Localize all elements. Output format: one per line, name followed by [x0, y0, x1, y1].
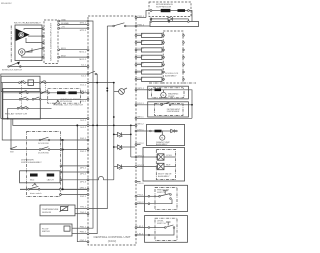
svg-text:SUPPRESSOR: SUPPRESSOR — [156, 6, 172, 8]
CCU internal wire with hop arc — [89, 176, 114, 179]
triac T3 — [114, 165, 135, 170]
washing pump outer box — [148, 86, 189, 99]
svg-text:DOOR SW: DOOR SW — [38, 152, 50, 154]
pin on dispenser edge row 2 — [60, 149, 62, 151]
wire: temp sensor to CCU pin TH1.1 — [75, 207, 89, 210]
wire: CCU pin to level switch NO — [135, 228, 174, 236]
pressure switch S7 — [159, 191, 172, 200]
valve V2 — [158, 163, 176, 169]
svg-text:MT1.3: MT1.3 — [80, 30, 87, 32]
flow meter symbol — [64, 226, 70, 231]
wire: CCU pin to drain pump — [135, 129, 151, 132]
solenoid L1 (square) on row DL — [28, 80, 34, 86]
wire: CCU pin to pressure switch common — [135, 195, 159, 198]
wire: door switch 2 to CCU pin DS1.2 — [11, 119, 89, 153]
switch S2 on wire DS1.1 — [38, 137, 50, 145]
latch unit box inside dispenser — [20, 171, 60, 183]
svg-text:RELAY SWITCH: RELAY SWITCH — [5, 113, 28, 116]
svg-text:MO1: MO1 — [61, 48, 67, 50]
wire: bus to CCU pin SL1.1 — [1, 118, 89, 123]
stub pin NE1.2 — [135, 124, 144, 127]
dispenser assembly label — [21, 160, 42, 165]
svg-text:GND: GND — [61, 19, 66, 21]
heater element R2 — [68, 91, 76, 94]
CCU internal vertical bus 3 — [113, 83, 115, 180]
svg-text:SIGNAL: SIGNAL — [61, 22, 70, 25]
CCU internal vertical bus 2 — [89, 74, 97, 234]
stub pin PS0 — [135, 181, 144, 186]
svg-text:DS1.2: DS1.2 — [80, 151, 87, 153]
CCU internal horizontal link at 82.6 — [89, 82, 114, 84]
CCU internal vertical bus 1b — [89, 26, 107, 209]
motor M1 symbol (stator wedges + armature) — [16, 29, 30, 42]
wire: heater row to CCU pin HT1.1 — [3, 91, 89, 94]
wire: right bus return to CCU — [135, 117, 192, 120]
contact K1 on row DL — [19, 80, 26, 83]
junction dots on bus — [92, 125, 132, 127]
drain pump fuse F2 — [151, 130, 171, 133]
wire: CCU pin to valve 2 — [135, 165, 157, 168]
mains filter dashed box — [149, 2, 191, 17]
pin at heater exit — [82, 92, 84, 94]
contact K2 on row DL — [39, 80, 46, 83]
detergent contact K8 — [161, 102, 193, 105]
svg-text:LATCH: LATCH — [47, 179, 54, 182]
inlet valve inner dashed box — [156, 150, 175, 180]
flow meter box — [40, 224, 72, 236]
svg-text:TH1.1: TH1.1 — [80, 207, 87, 209]
svg-text:SL1.1: SL1.1 — [80, 120, 86, 122]
CCU internal contact K9 on interlock row — [89, 71, 97, 75]
svg-text:DR1.1: DR1.1 — [80, 187, 87, 189]
motor assembly box M1 — [14, 22, 42, 61]
vertical link to bus — [7, 108, 9, 119]
svg-text:DOOR SW: DOOR SW — [38, 143, 50, 145]
svg-text:DP1.2: DP1.2 — [80, 174, 87, 176]
wire: long return bus to CCU pin GN1.1 — [76, 124, 89, 242]
svg-text:ASSEMBLY: ASSEMBLY — [165, 74, 177, 77]
heater thermostat arrow — [54, 100, 60, 105]
wire: relay row 2 to CCU pin HT1.2 — [3, 98, 89, 103]
inlet valve box — [143, 148, 185, 182]
tacho generator G1 symbol — [19, 49, 26, 56]
wire: fuse to right bus — [161, 90, 192, 119]
drain pump box — [147, 124, 185, 145]
svg-text:HT1.2: HT1.2 — [80, 101, 87, 103]
svg-text:MOTOR ASSEMBLY: MOTOR ASSEMBLY — [14, 22, 42, 25]
svg-text:METER: METER — [42, 231, 50, 233]
wire: bus to CCU pin SL1.2 — [13, 119, 89, 129]
wire: dispenser pin to CCU pin DS2.1 — [60, 194, 89, 199]
svg-text:THERMAL CUT-OUT SWITCH: THERMAL CUT-OUT SWITCH — [53, 103, 83, 106]
svg-text:ASSEMBLY: ASSEMBLY — [158, 175, 170, 178]
svg-text:M: M — [162, 95, 164, 97]
CCU internal horizontal bus to pin — [89, 124, 135, 126]
svg-text:PUMP: PUMP — [168, 96, 175, 98]
wire: common bus down — [62, 140, 64, 189]
svg-text:TH1.2: TH1.2 — [80, 212, 87, 214]
svg-text:WITH FUSE: WITH FUSE — [60, 101, 73, 103]
indicator box 3 + wires — [135, 48, 184, 52]
motor internal leads — [22, 29, 42, 57]
connector X1 (motor connector, dashed) — [44, 20, 58, 64]
svg-text:INTERLOCK SWITCH: INTERLOCK SWITCH — [2, 70, 22, 72]
svg-text:PS1.0: PS1.0 — [138, 183, 145, 185]
wire: internal to valve pin — [131, 156, 135, 158]
svg-text:SENSOR: SENSOR — [42, 212, 52, 214]
svg-text:SWITCH ASSEMBLY: SWITCH ASSEMBLY — [21, 161, 42, 164]
junction dot — [96, 82, 98, 84]
CCU internal vertical bus 4 — [130, 125, 132, 157]
svg-text:WD-8015C: WD-8015C — [1, 3, 12, 5]
dispenser switch assembly dashed box — [27, 132, 61, 197]
wire: CCU pin to detergent contact — [135, 103, 161, 106]
door-lock assembly label — [165, 73, 179, 77]
wire: relay aux contact row — [8, 106, 52, 109]
relay contact K3 on heater row — [19, 90, 28, 93]
indicator box 1 + wires — [135, 33, 184, 37]
drain pump motor M3 — [156, 131, 170, 146]
wire: motor box to connector X1 (5 leads) — [42, 28, 44, 58]
svg-text:DS1.1: DS1.1 — [80, 138, 87, 140]
CCU internal relay contact K7 (mains) — [107, 23, 135, 27]
svg-text:SWITCH: SWITCH — [157, 192, 166, 194]
wire: CCU pin to washing pump — [135, 88, 154, 91]
svg-text:MO2: MO2 — [61, 55, 67, 57]
wire: interlock return to CCU pin IL1.2 — [1, 73, 89, 118]
wire: X1 to CCU pin MT1.1 (GND) — [58, 19, 89, 24]
pressure switch box — [145, 185, 188, 211]
junction dot on bus 3 — [113, 116, 115, 118]
wire: CCU pin to mains L — [135, 11, 150, 19]
door-lock box A outline — [1, 76, 40, 91]
svg-text:MT1.1: MT1.1 — [80, 22, 87, 24]
svg-text:IL1.1: IL1.1 — [81, 65, 87, 67]
wire: dispenser pin to CCU pin DP1.3 — [60, 179, 89, 184]
svg-text:DS2.1: DS2.1 — [80, 196, 87, 198]
valve V1 — [158, 154, 176, 160]
svg-text:MO1.1: MO1.1 — [79, 51, 86, 53]
svg-text:+5V: +5V — [61, 27, 65, 29]
interlock switch S1 symbol (blade with actuator arrow) — [8, 62, 21, 68]
svg-text:MO1.2: MO1.2 — [79, 59, 86, 61]
svg-text:DP1.3: DP1.3 — [80, 182, 87, 184]
wire: X1 to CCU pin MT1.3 — [58, 27, 89, 32]
svg-text:M: M — [161, 138, 163, 140]
wire: X1 to CCU pin MO1.2 — [58, 55, 89, 60]
latch coil L2 — [30, 174, 38, 177]
CCU internal vertical bus 1 — [89, 21, 93, 228]
indicator box 5 + wires — [135, 63, 184, 67]
detergent dispenser inner dashed box — [155, 104, 184, 116]
op/CCU block: central control unit dashed outline — [88, 16, 136, 245]
wire harness dash right of door-lock box — [183, 82, 196, 84]
wire: dispenser pin to CCU pin DP1.1 — [60, 165, 89, 170]
drain switch S5 — [28, 183, 43, 195]
stub pin DP2.2 — [135, 143, 144, 146]
switch S3 on wire DS1.2 — [10, 146, 17, 153]
filter inductor L4 — [150, 9, 192, 22]
wire: door switch 1 to CCU pin DS1.1 — [2, 83, 89, 141]
terminal pins — [150, 21, 189, 23]
door-lock assembly dashed box — [163, 31, 183, 83]
wire: X1 to CCU pin MO1.1 — [58, 48, 89, 53]
wire: drain switch row to CCU pin DR1.1 — [20, 187, 89, 190]
level switch S8 — [165, 222, 175, 228]
junction dots on bus 1b — [106, 87, 108, 89]
filter diode D1 row — [150, 17, 188, 23]
heater label — [53, 98, 83, 107]
CCU internal transistor Q1 — [114, 88, 127, 94]
relay contact K4 on heater row — [41, 90, 50, 93]
svg-text:FM1.1: FM1.1 — [80, 226, 87, 228]
wire: CCU pin to level switch common — [135, 226, 165, 229]
wire: row with lock contacts to CCU pin DL1.1 — [1, 82, 89, 87]
triac T1 — [113, 132, 132, 137]
svg-text:COLD: COLD — [166, 155, 172, 157]
relay contact K6 on row 2 — [32, 97, 41, 100]
svg-text:IL1.2: IL1.2 — [81, 76, 87, 78]
heater assembly dashed box — [48, 89, 81, 104]
wire: CCU mains pin to terminal strip — [135, 24, 150, 27]
svg-text:SL1.2: SL1.2 — [80, 127, 86, 129]
thermal fuse F1 — [155, 89, 162, 92]
relay contact K5 on row 2 — [19, 97, 28, 100]
wire: flow meter to CCU pin FM1.1 — [72, 226, 89, 229]
indicator box 6 + wires — [135, 70, 184, 74]
wire: X1 to CCU pin MT1.2 — [58, 22, 89, 26]
wire: flow meter to CCU pin FM1.2 — [72, 232, 89, 235]
triac T2 — [113, 145, 135, 150]
svg-text:drain switch: drain switch — [30, 192, 42, 195]
svg-text:DL1.1: DL1.1 — [80, 84, 87, 86]
heater element R1 — [57, 91, 66, 94]
indicator box 4 + wires — [135, 55, 184, 59]
temperature sensor box — [40, 205, 75, 216]
wire: dispenser pin to CCU pin DP1.2 — [60, 171, 89, 176]
thermistor RT1 — [60, 206, 69, 212]
switch S4 on wire DS1.2 — [38, 147, 50, 155]
junction dots on common bus — [62, 139, 64, 141]
wire: interlock to CCU pin IL1.1 — [9, 65, 89, 68]
svg-text:FM1.2: FM1.2 — [80, 232, 87, 234]
drain pump diode D2 — [171, 129, 178, 132]
washing pump inner dashed box — [152, 88, 185, 98]
svg-text:HOT: HOT — [166, 164, 171, 166]
coil labels — [30, 179, 54, 182]
latch coil L3 — [47, 174, 55, 177]
svg-text:ASSEMBLY: ASSEMBLY — [156, 143, 168, 146]
svg-text:MOTOR CONNECTOR UNIT: MOTOR CONNECTOR UNIT — [51, 22, 53, 61]
svg-text:SWITCH: SWITCH — [157, 223, 166, 225]
wire: CCU pin to valve 1 — [135, 155, 157, 158]
water level inner dashed box — [155, 218, 177, 240]
svg-text:GN1.1: GN1.1 — [80, 240, 87, 242]
pin on dispenser edge row 1 — [60, 139, 62, 141]
wire: temp sensor to CCU pin TH1.2 — [75, 212, 89, 215]
interlock linkage dashed line — [10, 26, 12, 63]
wire harness dash left of door-lock box — [149, 82, 163, 84]
indicator box 7 + wires — [135, 77, 184, 81]
svg-text:TEMPERATURE: TEMPERATURE — [42, 208, 59, 211]
terminal strip box — [150, 22, 199, 27]
pressure switch inner dashed box — [155, 187, 177, 209]
detergent dispenser outer box — [148, 102, 189, 117]
svg-text:(CCU): (CCU) — [108, 239, 117, 243]
washing pump motor M2 — [161, 90, 179, 98]
svg-text:BUZ: BUZ — [30, 180, 35, 182]
svg-text:NE1.2: NE1.2 — [138, 124, 145, 126]
wire: CCU pin to pressure switch NC — [135, 199, 172, 204]
mechanical link dashes for contacts — [20, 81, 22, 107]
indicator box 2 + wires — [135, 40, 184, 44]
svg-text:DP1.1: DP1.1 — [80, 168, 87, 170]
water level switch box — [145, 216, 188, 243]
svg-text:DISPENSER: DISPENSER — [167, 111, 180, 113]
relay box B outline — [3, 89, 41, 120]
